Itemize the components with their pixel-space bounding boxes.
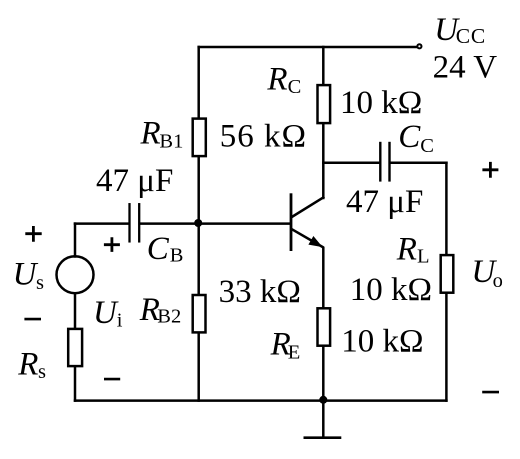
svg-text:U: U [93, 295, 119, 331]
svg-text:R: R [266, 62, 287, 98]
svg-text:33 kΩ: 33 kΩ [219, 274, 301, 310]
svg-text:B: B [170, 245, 184, 267]
svg-text:47 μF: 47 μF [96, 163, 173, 199]
svg-text:C: C [147, 231, 170, 267]
svg-text:B2: B2 [157, 306, 181, 328]
svg-text:47 μF: 47 μF [346, 184, 423, 220]
svg-text:i: i [117, 310, 123, 332]
svg-text:C: C [398, 119, 421, 155]
svg-text:L: L [417, 245, 430, 267]
svg-text:o: o [493, 270, 503, 292]
svg-text:C: C [420, 135, 434, 157]
svg-text:R: R [140, 116, 161, 152]
svg-text:U: U [13, 257, 39, 293]
svg-text:56 kΩ: 56 kΩ [220, 118, 307, 154]
svg-text:24 V: 24 V [433, 49, 498, 85]
svg-text:s: s [36, 272, 44, 294]
svg-text:10 kΩ: 10 kΩ [341, 324, 423, 360]
svg-text:R: R [396, 232, 417, 268]
svg-text:E: E [288, 342, 301, 364]
svg-text:B1: B1 [159, 131, 183, 153]
svg-text:R: R [17, 346, 38, 382]
svg-text:C: C [288, 76, 302, 98]
svg-text:s: s [38, 361, 46, 383]
svg-text:CC: CC [456, 24, 486, 48]
svg-text:10 kΩ: 10 kΩ [350, 272, 432, 308]
svg-text:10 kΩ: 10 kΩ [340, 85, 422, 121]
